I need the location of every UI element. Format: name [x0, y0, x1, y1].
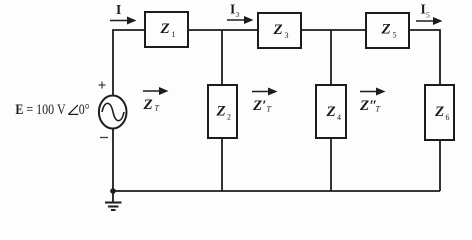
svg-text:4: 4: [337, 113, 341, 122]
impedance Z1: [145, 12, 188, 47]
svg-text:T: T: [267, 105, 272, 114]
wire: source bottom down: [112, 129, 114, 192]
wire: Z3 to Z5: [301, 29, 366, 31]
impedance Z4: [316, 85, 346, 138]
svg-text:Z: Z: [326, 104, 336, 120]
source E (AC): [99, 96, 127, 129]
wire: node b down to Z4: [330, 30, 332, 85]
svg-text:E = 100 V: E = 100 V: [15, 101, 65, 118]
svg-text:Z: Z: [273, 22, 283, 38]
svg-text:1: 1: [172, 30, 176, 39]
value label angle symbol: [68, 105, 78, 114]
svg-text:5: 5: [393, 31, 397, 40]
svg-text:Z: Z: [434, 104, 444, 120]
svg-text:I: I: [230, 2, 235, 17]
wire: Z5 right to Z6 top: [409, 30, 440, 85]
wire: Z6 bottom to ground bus: [439, 140, 441, 191]
svg-text:I: I: [116, 2, 121, 17]
impedance arrow ZT: [143, 87, 169, 113]
svg-text:Z: Z: [216, 104, 226, 120]
current arrow I5: [416, 2, 443, 26]
svg-text:Z: Z: [381, 22, 391, 38]
current arrow I: [110, 2, 137, 25]
svg-text:Z: Z: [143, 97, 153, 113]
wire: Z1 to Z3: [188, 29, 258, 31]
svg-text:3: 3: [285, 31, 289, 40]
svg-text:I: I: [421, 2, 426, 17]
svg-text:Z′: Z′: [252, 98, 266, 114]
impedance arrow Z'T: [252, 88, 278, 115]
impedance Z5: [366, 13, 409, 48]
ground: [105, 191, 122, 210]
current arrow I3: [227, 2, 254, 25]
impedance Z6: [425, 85, 454, 140]
wire: Z4 bottom to ground bus: [330, 138, 332, 191]
svg-text:Z: Z: [160, 21, 170, 37]
svg-text:3: 3: [236, 10, 240, 19]
svg-text:T: T: [376, 105, 381, 114]
wire: top, source to Z1: [113, 30, 145, 96]
wire: node a down to Z2: [221, 30, 223, 85]
svg-text:6: 6: [446, 113, 450, 122]
svg-text:T: T: [155, 104, 160, 113]
polarity +: [99, 82, 106, 89]
wire: bottom ground bus: [113, 190, 440, 192]
impedance arrow Z''T: [359, 88, 386, 115]
svg-text:5: 5: [426, 11, 430, 20]
junction: ground node dot: [110, 188, 116, 194]
wire: Z2 bottom to ground bus: [221, 138, 223, 191]
impedance Z2: [208, 85, 237, 138]
svg-text:2: 2: [227, 113, 231, 122]
polarity -: [100, 137, 108, 139]
impedance Z3: [258, 13, 301, 48]
svg-text:0°: 0°: [79, 101, 90, 118]
